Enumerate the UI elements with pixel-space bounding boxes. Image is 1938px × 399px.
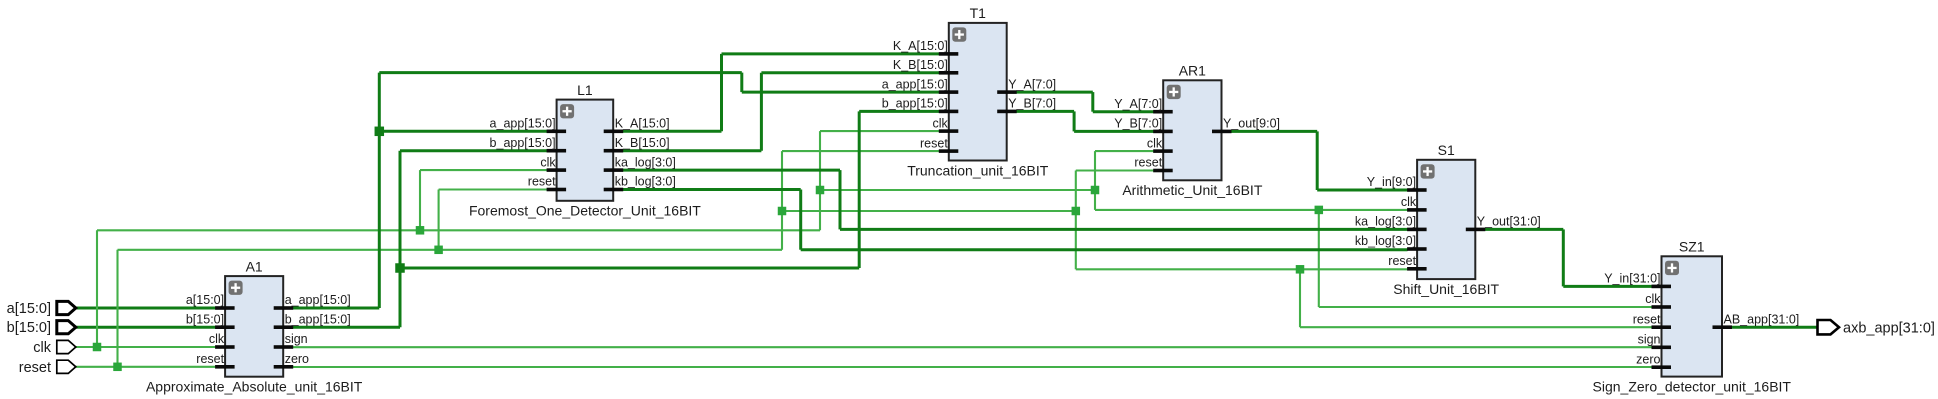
pin L1.ka_log[3:0] (output) <box>604 155 676 172</box>
svg-text:b[15:0]: b[15:0] <box>186 312 224 326</box>
pin A1.a[15:0] (input) <box>186 293 235 310</box>
wire bus Y_A drop x1093 <box>1091 92 1094 112</box>
pin AR1.reset (input) <box>1134 156 1172 173</box>
wire bus Y_A into AR1.Y_A <box>1093 110 1154 113</box>
module block T1 Truncation_unit_16BIT <box>882 5 1056 178</box>
pin A1.sign (output) <box>274 332 308 349</box>
svg-text:SZ1: SZ1 <box>1679 239 1705 255</box>
input port reset <box>19 360 76 376</box>
svg-text:K_A[15:0]: K_A[15:0] <box>893 39 948 53</box>
module block A1 Approximate_Absolute_unit_16BIT <box>146 258 363 394</box>
pin T1.reset (input) <box>920 136 958 153</box>
wire reset branch up to L1 <box>438 190 440 250</box>
pin A1.zero (output) <box>274 352 309 369</box>
wire clk riser at x97 <box>96 230 98 347</box>
wire reset into L1.reset <box>439 188 547 190</box>
pin A1.clk (input) <box>209 332 235 349</box>
output port axb_app[31:0] <box>1818 320 1935 336</box>
svg-text:a_app[15:0]: a_app[15:0] <box>285 293 351 307</box>
wire reset riser to T1 at x782 <box>781 151 783 250</box>
svg-text:a[15:0]: a[15:0] <box>7 301 51 317</box>
svg-text:Y_out[31:0]: Y_out[31:0] <box>1477 215 1541 229</box>
pin T1.a_app[15:0] (input) <box>882 77 959 94</box>
svg-text:kb_log[3:0]: kb_log[3:0] <box>1355 234 1416 248</box>
pin SZ1.sign (input) <box>1638 333 1671 350</box>
pin SZ1.Y_in[31:0] (input) <box>1604 272 1671 289</box>
wire reset horizontal distribution y250 <box>118 249 783 251</box>
svg-text:axb_app[31:0]: axb_app[31:0] <box>1843 320 1935 336</box>
svg-text:sign: sign <box>1638 333 1661 347</box>
wire bus Y_out9 drop x1317 <box>1316 131 1319 190</box>
svg-text:reset: reset <box>19 360 51 376</box>
svg-text:Truncation_unit_16BIT: Truncation_unit_16BIT <box>907 162 1049 178</box>
svg-text:Y_A[7:0]: Y_A[7:0] <box>1114 97 1162 111</box>
wire bus Y_out31 into SZ1.Y_in <box>1563 285 1652 288</box>
input port b[15:0] <box>7 320 76 336</box>
svg-text:b_app[15:0]: b_app[15:0] <box>882 97 948 111</box>
wire clk up to AR1 <box>1094 151 1096 190</box>
svg-text:reset: reset <box>196 352 224 366</box>
wire reset branch horizontal y211 <box>782 210 1076 212</box>
wire bus b[15:0] port-to-A1 <box>76 326 216 329</box>
junction clk to L1 <box>416 226 425 235</box>
pin SZ1.zero (input) <box>1636 352 1671 369</box>
pin L1.b_app[15:0] (input) <box>490 136 567 153</box>
junction bus a_app to L1 <box>375 127 385 137</box>
pin T1.clk (input) <box>933 116 959 133</box>
svg-text:Shift_Unit_16BIT: Shift_Unit_16BIT <box>1393 281 1499 297</box>
pin L1.clk (input) <box>540 155 566 172</box>
svg-text:Y_in[9:0]: Y_in[9:0] <box>1367 175 1416 189</box>
wire clk into AR1.clk <box>1095 150 1154 152</box>
wire bus kb_log from L1 <box>623 188 801 191</box>
pin L1.K_A[15:0] (output) <box>604 117 670 134</box>
svg-text:Sign_Zero_detector_unit_16BIT: Sign_Zero_detector_unit_16BIT <box>1593 379 1792 395</box>
wire bus Y_B from T1 <box>1016 110 1074 113</box>
junction reset to SZ1 <box>1296 265 1305 274</box>
svg-text:clk: clk <box>1645 292 1661 306</box>
wire bus a_app from A1 <box>293 307 380 310</box>
pin L1.reset (input) <box>528 175 566 192</box>
wire bus Y_out9 into S1.Y_in <box>1317 189 1407 192</box>
junction reset branch at T1 riser <box>778 207 787 216</box>
wire bus kb_log into S1.kb_log <box>801 248 1408 251</box>
svg-text:a_app[15:0]: a_app[15:0] <box>882 77 948 91</box>
pin S1.reset (input) <box>1388 254 1426 271</box>
pin L1.kb_log[3:0] (output) <box>604 175 676 192</box>
pin SZ1.reset (input) <box>1633 312 1671 329</box>
wire bus Y_B into AR1.Y_B <box>1074 130 1153 133</box>
wire clk riser to T1 at x820 <box>819 131 821 230</box>
pin S1.ka_log[3:0] (input) <box>1355 215 1427 232</box>
pin A1.reset (input) <box>196 352 234 369</box>
wire bus a_app top horizontal y72 <box>379 71 742 74</box>
svg-text:b[15:0]: b[15:0] <box>7 320 51 336</box>
svg-text:Y_in[31:0]: Y_in[31:0] <box>1604 272 1660 286</box>
pin T1.K_A[15:0] (input) <box>893 39 958 56</box>
input port a[15:0] <box>7 301 76 317</box>
wire bus Y_out9 from AR1 <box>1231 130 1317 133</box>
wire bus K_A riser x721 <box>720 54 723 131</box>
svg-text:b_app[15:0]: b_app[15:0] <box>490 136 556 150</box>
module block AR1 Arithmetic_Unit_16BIT <box>1114 63 1280 199</box>
pin S1.Y_out[31:0] (output) <box>1466 215 1541 232</box>
wire bus a[15:0] port-to-A1 <box>76 307 216 310</box>
wire bus K_A into T1.K_A <box>722 52 940 55</box>
wire bus b_app riser x400 <box>399 151 402 328</box>
svg-text:reset: reset <box>1134 156 1162 170</box>
wire clk into SZ1.clk <box>1319 306 1652 308</box>
wire bus Y_out31 from S1 <box>1485 228 1564 231</box>
svg-text:K_B[15:0]: K_B[15:0] <box>893 58 948 72</box>
pin AR1.Y_B[7:0] (input) <box>1114 117 1172 134</box>
wire bus b_app into T1.b_app <box>859 110 939 113</box>
wire bus a_app jog down x742 <box>740 73 743 93</box>
pin AR1.Y_out[9:0] (output) <box>1212 117 1280 134</box>
pin A1.a_app[15:0] (output) <box>274 293 351 310</box>
svg-text:clk: clk <box>1401 195 1417 209</box>
wire bus ka_log from L1 <box>623 169 840 172</box>
wire bus K_A from L1 <box>623 130 722 133</box>
svg-text:ka_log[3:0]: ka_log[3:0] <box>615 155 676 169</box>
svg-text:clk: clk <box>209 332 225 346</box>
pin S1.clk (input) <box>1401 195 1427 212</box>
pin SZ1.AB_app[31:0] (output) <box>1713 312 1800 329</box>
wire reset into S1.reset <box>1076 268 1408 270</box>
wire clk drop to SZ1 <box>1318 210 1320 307</box>
svg-text:Foremost_One_Detector_Unit_16B: Foremost_One_Detector_Unit_16BIT <box>469 203 701 219</box>
svg-text:Approximate_Absolute_unit_16BI: Approximate_Absolute_unit_16BIT <box>146 379 363 395</box>
wire reset up to AR1 <box>1075 171 1077 212</box>
wire clk port-to-A1 <box>76 346 216 348</box>
wire bus a_app branch into L1.a_app <box>379 130 547 133</box>
svg-text:kb_log[3:0]: kb_log[3:0] <box>615 175 676 189</box>
pin T1.b_app[15:0] (input) <box>882 97 959 114</box>
svg-text:Y_B[7:0]: Y_B[7:0] <box>1008 97 1056 111</box>
wire clk horizontal distribution y230 <box>97 229 820 231</box>
pin T1.Y_B[7:0] (output) <box>997 97 1056 114</box>
junction clk branch at T1 riser <box>816 186 825 195</box>
wire bus K_B from L1 <box>623 149 762 152</box>
wire clk into L1.clk <box>420 169 547 171</box>
wire bus b_app branch riser x859 <box>858 111 861 268</box>
wire bus Y_B drop x1074 <box>1073 111 1076 131</box>
svg-text:reset: reset <box>1388 254 1416 268</box>
svg-text:a_app[15:0]: a_app[15:0] <box>490 117 556 131</box>
wire zero A1-to-SZ1 <box>293 366 1652 368</box>
junction clk to SZ1 <box>1315 206 1324 215</box>
wire reset into SZ1.reset <box>1300 326 1652 328</box>
wire clk into S1.clk <box>1095 209 1408 211</box>
pin S1.Y_in[9:0] (input) <box>1367 175 1427 192</box>
junction reset near port <box>113 363 122 372</box>
svg-text:clk: clk <box>540 155 556 169</box>
wire reset port-to-A1 <box>76 366 216 368</box>
pin SZ1.clk (input) <box>1645 292 1671 309</box>
svg-text:Y_A[7:0]: Y_A[7:0] <box>1008 77 1056 91</box>
svg-text:ka_log[3:0]: ka_log[3:0] <box>1355 215 1416 229</box>
wire bus AB_app SZ1-to-port <box>1732 326 1818 329</box>
pin AR1.Y_A[7:0] (input) <box>1114 97 1172 114</box>
wire bus b_app branch horizontal y268 <box>400 267 859 270</box>
wire bus a_app riser x379 <box>378 73 381 308</box>
wire clk into T1.clk <box>820 130 939 132</box>
pin L1.K_B[15:0] (output) <box>604 136 670 153</box>
module block SZ1 Sign_Zero_detector_unit_16BIT <box>1593 239 1800 395</box>
svg-text:zero: zero <box>285 352 309 366</box>
svg-text:T1: T1 <box>970 5 987 21</box>
svg-text:Y_B[7:0]: Y_B[7:0] <box>1114 117 1162 131</box>
svg-text:clk: clk <box>33 340 51 356</box>
svg-text:sign: sign <box>285 332 308 346</box>
pin S1.kb_log[3:0] (input) <box>1355 234 1427 251</box>
wire clk branch horizontal y190 <box>820 189 1095 191</box>
wire bus b_app into L1.b_app <box>400 149 547 152</box>
pin T1.Y_A[7:0] (output) <box>997 77 1056 94</box>
wire bus K_B into T1.K_B <box>761 71 939 74</box>
module block S1 Shift_Unit_16BIT <box>1355 142 1541 297</box>
junction clk at AR1 riser <box>1091 186 1100 195</box>
wire bus K_B riser x761 <box>760 73 763 151</box>
wire clk branch up to L1 <box>419 170 421 230</box>
svg-text:clk: clk <box>933 116 949 130</box>
wire bus ka_log drop x840 <box>839 170 842 229</box>
svg-text:clk: clk <box>1147 136 1163 150</box>
svg-text:reset: reset <box>920 136 948 150</box>
wire reset into T1.reset <box>782 150 939 152</box>
svg-text:A1: A1 <box>246 258 263 274</box>
wire bus b_app from A1 <box>293 326 400 329</box>
svg-text:zero: zero <box>1636 352 1660 366</box>
svg-text:AB_app[31:0]: AB_app[31:0] <box>1724 312 1800 326</box>
wire sign A1-to-SZ1 <box>293 346 1652 348</box>
wire bus kb_log drop x801 <box>799 190 802 250</box>
pin T1.K_B[15:0] (input) <box>893 58 958 75</box>
svg-text:Arithmetic_Unit_16BIT: Arithmetic_Unit_16BIT <box>1122 182 1263 198</box>
wire reset into AR1.reset <box>1076 169 1154 171</box>
svg-text:a[15:0]: a[15:0] <box>186 293 224 307</box>
pin A1.b[15:0] (input) <box>186 312 235 329</box>
wire bus a_app into T1.a_app <box>742 91 939 94</box>
svg-text:S1: S1 <box>1438 142 1455 158</box>
wire bus ka_log into S1.ka_log <box>840 228 1408 231</box>
svg-text:reset: reset <box>1633 312 1661 326</box>
junction clk near port <box>93 343 102 352</box>
svg-text:b_app[15:0]: b_app[15:0] <box>285 312 351 326</box>
svg-text:K_A[15:0]: K_A[15:0] <box>615 117 670 131</box>
pin L1.a_app[15:0] (input) <box>490 117 567 134</box>
pin AR1.clk (input) <box>1147 136 1173 153</box>
svg-text:L1: L1 <box>577 82 593 98</box>
pin A1.b_app[15:0] (output) <box>274 312 351 329</box>
wire bus Y_out31 drop x1563 <box>1562 229 1565 286</box>
junction bus b_app branch <box>395 263 405 273</box>
svg-text:Y_out[9:0]: Y_out[9:0] <box>1223 117 1280 131</box>
module block L1 Foremost_One_Detector_Unit_16BIT <box>469 82 701 219</box>
input port clk <box>33 340 76 356</box>
junction reset to L1 <box>434 246 443 255</box>
wire reset drop to SZ1 <box>1299 269 1301 327</box>
junction reset at AR1 riser <box>1072 207 1081 216</box>
svg-text:reset: reset <box>528 175 556 189</box>
wire reset riser at x117 <box>116 250 118 367</box>
svg-text:AR1: AR1 <box>1179 63 1206 79</box>
svg-text:K_B[15:0]: K_B[15:0] <box>615 136 670 150</box>
wire reset down to S1 row <box>1075 211 1077 269</box>
wire bus Y_A from T1 <box>1016 91 1093 94</box>
wire clk down from junction to S1 row <box>1094 190 1096 210</box>
